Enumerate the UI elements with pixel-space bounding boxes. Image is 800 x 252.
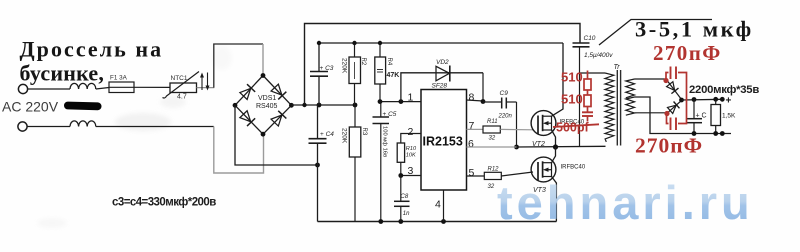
wire midpoint	[517, 145, 606, 148]
wire c10 down	[579, 47, 581, 147]
thermistor NTC1	[170, 83, 197, 93]
svg-text:R11: R11	[487, 119, 498, 125]
svg-text:32: 32	[489, 136, 496, 142]
wire c9 to mid	[516, 102, 518, 147]
node midpoint	[553, 144, 558, 149]
svg-text:R4: R4	[386, 58, 392, 66]
svg-text:RS405: RS405	[256, 103, 278, 110]
node r10/c8	[398, 173, 403, 178]
node r-out top	[713, 97, 718, 102]
wire vt3 source	[552, 177, 557, 222]
node pin8/c9	[481, 99, 486, 104]
diode VD-out1	[666, 79, 682, 100]
bridge rectifier VDS1 RS405	[235, 76, 291, 135]
wire r11 to gate	[500, 128, 533, 130]
svg-text:AC 220V: AC 220V	[2, 99, 59, 115]
svg-text:F1 3A: F1 3A	[110, 75, 128, 82]
node r4 top	[378, 41, 382, 45]
svg-text:8: 8	[469, 92, 475, 104]
wire vt3 drain	[552, 147, 556, 163]
node gnd c5	[378, 219, 383, 224]
svg-text:VT2: VT2	[532, 141, 545, 148]
node c-out top	[692, 97, 697, 102]
wire	[262, 44, 264, 76]
capacitor C10	[573, 42, 590, 44]
capacitor red snubber loop	[666, 67, 687, 131]
wire	[134, 86, 170, 88]
terminal X1 (line)	[18, 84, 27, 93]
svg-text:47K: 47K	[387, 72, 400, 79]
node bridge right	[289, 103, 294, 108]
wire	[587, 90, 589, 95]
resistor red 510 #2	[584, 95, 591, 107]
capacitor C8 1n	[400, 176, 402, 202]
svg-text:+ C5: + C5	[383, 111, 397, 118]
node red top	[663, 78, 668, 83]
svg-text:2200мкф*35в: 2200мкф*35в	[689, 84, 759, 96]
capacitor C out	[693, 100, 695, 119]
svg-text:10K: 10K	[406, 153, 416, 159]
svg-text:+ C: + C	[696, 113, 707, 120]
wire pin6	[467, 146, 517, 148]
wire vd2 drop	[482, 73, 484, 102]
svg-text:510: 510	[561, 92, 583, 107]
capacitor C4	[317, 105, 319, 139]
svg-text:220K: 220K	[340, 58, 347, 74]
svg-text:Дроссель на: Дроссель на	[20, 37, 164, 62]
node out terminal top	[720, 97, 725, 102]
resistor R10 10K	[397, 143, 404, 162]
transistor VT3 IRFBC40	[531, 157, 556, 182]
wire primary top lead	[580, 72, 606, 74]
svg-text:SF28: SF28	[432, 83, 448, 90]
wire pin2	[401, 134, 421, 144]
wire r12 to gate	[501, 172, 533, 176]
resistor R3	[354, 105, 356, 127]
diode D-tr	[271, 84, 287, 100]
wire	[587, 116, 589, 122]
node c3 top	[317, 41, 321, 45]
svg-text:510: 510	[561, 70, 583, 85]
node r2 top	[352, 41, 356, 45]
inductor L1 (bead choke)	[70, 83, 96, 89]
arrow down	[207, 73, 209, 89]
capacitor C3	[310, 71, 328, 73]
node gnd c8	[398, 219, 403, 224]
node gnd pin4	[441, 219, 446, 224]
svg-text:IR2153: IR2153	[423, 135, 463, 149]
wire pin7	[467, 128, 484, 130]
svg-text:2: 2	[408, 126, 414, 138]
redaction blob	[64, 102, 102, 111]
svg-text:c3=c4=330мкф*200в: c3=c4=330мкф*200в	[112, 197, 216, 209]
svg-text:R2: R2	[360, 58, 366, 66]
wire vcc rail	[319, 43, 563, 72]
transformer Tr primary	[605, 73, 614, 142]
svg-text:VD2: VD2	[436, 59, 449, 66]
svg-text:1,5K: 1,5K	[722, 113, 736, 120]
wire vt2 source	[552, 130, 556, 147]
svg-text:1: 1	[408, 92, 414, 104]
svg-text:R10: R10	[406, 146, 417, 152]
svg-text:7: 7	[469, 120, 475, 132]
wire plus rail	[291, 104, 355, 106]
resistor R11 32	[483, 126, 500, 133]
capacitor red (replaced 500pf)	[582, 111, 593, 113]
svg-text:4: 4	[435, 199, 441, 211]
node c3c4	[317, 103, 322, 108]
svg-text:100 мф 16в: 100 мф 16в	[382, 126, 388, 157]
wire top rail	[305, 24, 581, 106]
wire red chain top	[587, 71, 589, 80]
resistor R12 32	[484, 172, 501, 179]
wire vt2 drain	[552, 43, 564, 116]
node c9/pin6	[514, 145, 519, 150]
diode D-tl	[239, 84, 255, 100]
svg-text:C8: C8	[401, 194, 409, 200]
capacitor C5	[380, 102, 382, 117]
arrow up	[201, 75, 203, 90]
resistor red 510 #1	[584, 79, 591, 90]
svg-text:IRFBC40: IRFBC40	[561, 165, 586, 171]
svg-text:+ C4: + C4	[320, 131, 334, 138]
resistor R4	[379, 43, 381, 57]
svg-text:C10: C10	[584, 35, 596, 42]
svg-text:+: +	[726, 96, 732, 107]
scan smudges (decor)	[37, 46, 232, 228]
wire ground rail	[318, 221, 557, 223]
svg-text:5: 5	[469, 167, 475, 179]
svg-text:R12: R12	[488, 167, 500, 173]
node bridge bottom	[261, 132, 266, 137]
wire	[587, 107, 589, 113]
svg-text:270пФ: 270пФ	[653, 41, 722, 65]
wire	[197, 87, 215, 89]
node c-out bottom	[692, 131, 697, 136]
wire annotation pointer	[599, 20, 712, 46]
wire secondary top lead	[635, 78, 667, 80]
svg-text:270пФ: 270пФ	[635, 134, 703, 158]
transformer secondary upper	[626, 79, 635, 98]
wire pin5	[467, 175, 485, 177]
wire	[96, 126, 214, 128]
wire	[96, 88, 109, 90]
node r4/c5	[378, 99, 383, 104]
svg-text:VDS1: VDS1	[258, 95, 276, 102]
svg-text:NTC1: NTC1	[171, 75, 188, 82]
wire	[27, 126, 70, 128]
resistor R2	[354, 43, 356, 57]
node r-out bottom	[713, 131, 718, 136]
wire (to bridge bottom)	[214, 127, 264, 174]
wire (to bridge top)	[214, 44, 263, 88]
transformer secondary lower	[626, 97, 635, 115]
svg-text:R3: R3	[361, 128, 367, 136]
wire pin3	[401, 175, 421, 177]
wire pin8 stub	[467, 100, 484, 101]
diode VD2 SF28	[401, 73, 483, 102]
transformer core	[616, 70, 618, 146]
node out plus	[679, 98, 684, 103]
diode D-bl	[239, 110, 255, 126]
wire pin1 net	[380, 101, 421, 103]
node out terminal bottom	[720, 131, 725, 136]
svg-text:220n: 220n	[498, 113, 513, 119]
wire (bridge minus)	[235, 105, 318, 165]
svg-text:C9: C9	[500, 90, 509, 97]
fuse F1 3A	[109, 82, 134, 93]
node bridge top	[261, 73, 266, 78]
svg-text:6: 6	[468, 138, 474, 150]
svg-text:32: 32	[488, 184, 495, 190]
SECTION: red annotations	[582, 71, 593, 122]
diode D-br	[271, 111, 287, 127]
node red bottom	[664, 111, 669, 116]
node tee	[302, 103, 306, 107]
svg-text:+ C3: + C3	[320, 65, 334, 72]
transistor VT2 IRFBC40	[531, 111, 556, 136]
wire pin4	[443, 190, 445, 222]
resistor R out 1,5K	[715, 99, 717, 104]
svg-text:4.7: 4.7	[177, 94, 187, 101]
inductor L2 (bead choke)	[70, 121, 96, 127]
svg-text:1n: 1n	[403, 211, 410, 217]
node bridge left	[233, 103, 238, 108]
svg-text:500pf: 500pf	[556, 121, 589, 135]
node r3 top	[353, 103, 358, 108]
diode VD-out2	[668, 101, 682, 113]
svg-text:бусинке,: бусинке,	[20, 61, 105, 86]
wire secondary center tap	[635, 97, 732, 134]
node minus junction	[315, 163, 320, 168]
node vd2 riser	[399, 99, 404, 104]
wire	[27, 88, 70, 90]
svg-text:1,5μ/400v: 1,5μ/400v	[584, 52, 613, 59]
op-amp U1 IR2153	[421, 90, 467, 191]
capacitor C9 220n	[483, 101, 501, 103]
svg-text:tehnari.ru: tehnari.ru	[497, 176, 754, 229]
strike line	[553, 124, 599, 127]
terminal X2 (neutral)	[18, 122, 27, 131]
wire secondary bottom lead	[635, 112, 668, 114]
svg-text:220K: 220K	[340, 128, 347, 144]
svg-text:Tr: Tr	[614, 64, 621, 71]
wire out top rail	[682, 98, 724, 101]
